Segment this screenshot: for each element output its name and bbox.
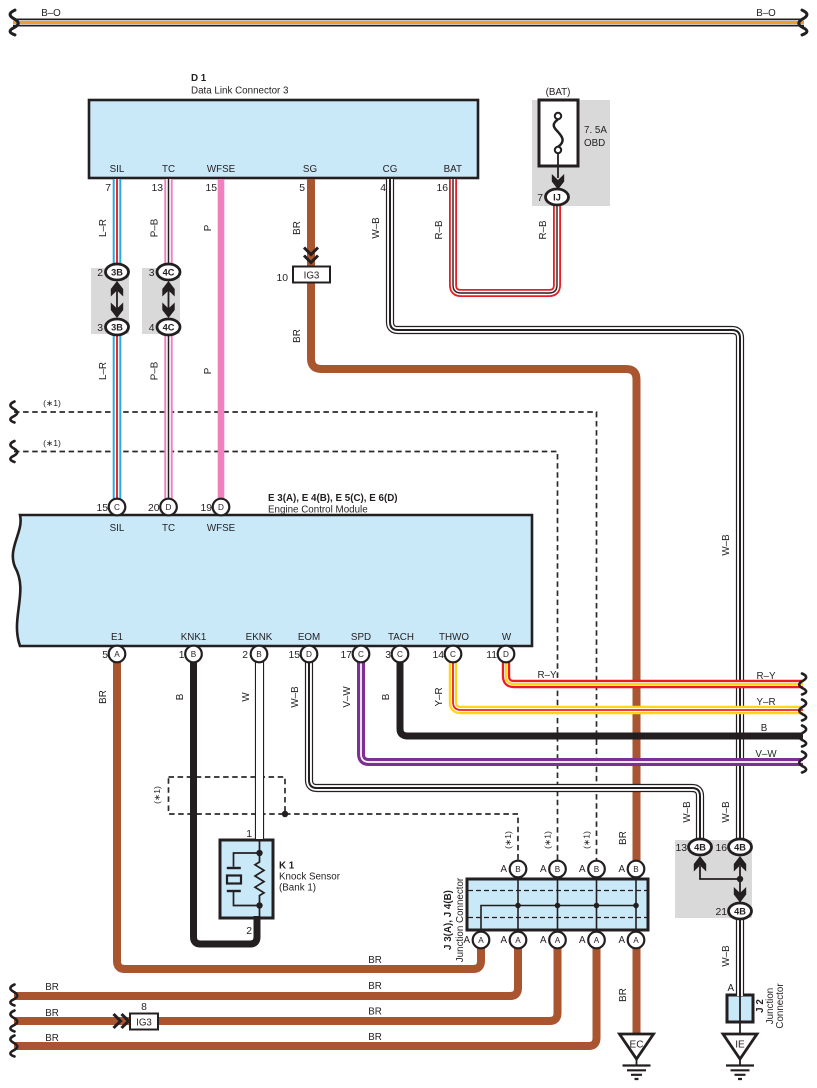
svg-text:BR: BR — [618, 988, 629, 1002]
svg-text:A: A — [540, 864, 547, 875]
svg-text:IJ: IJ — [553, 193, 561, 203]
dashed shield line 3 to junction B1 — [285, 814, 518, 860]
J2 junction connector box — [727, 995, 753, 1022]
wire R-B BAT to IJ — [453, 179, 557, 293]
wire L-R SIL — [113, 179, 122, 507]
svg-text:4C: 4C — [163, 268, 175, 278]
oval 13(4B) — [689, 839, 712, 855]
J3(A) J4(B) junction connector box — [467, 879, 648, 930]
D1 pin names — [110, 164, 462, 175]
junction pin letters and A labels — [478, 865, 639, 945]
svg-text:L–R: L–R — [98, 362, 109, 380]
svg-text:A: A — [540, 935, 547, 946]
svg-text:D: D — [166, 503, 172, 512]
junction bottom pin circles A — [473, 932, 645, 949]
wire J2 to IE ground — [739, 996, 741, 1035]
BR labels bottom harness — [45, 955, 382, 1044]
svg-text:3: 3 — [385, 650, 391, 661]
svg-text:SIL: SIL — [110, 164, 125, 175]
svg-text:B–O: B–O — [41, 8, 61, 19]
svg-text:A: A — [727, 983, 734, 994]
svg-text:R–Y: R–Y — [756, 671, 776, 682]
svg-text:D 1: D 1 — [191, 73, 207, 84]
svg-text:B: B — [381, 693, 392, 700]
svg-text:(∗1): (∗1) — [43, 398, 61, 408]
svg-text:CG: CG — [383, 164, 398, 175]
svg-text:W–B: W–B — [721, 801, 732, 823]
svg-text:E1: E1 — [111, 632, 123, 643]
ECM top pin circles — [109, 499, 230, 516]
dashed shield line 2 (*1) to junction B2 — [14, 452, 558, 861]
svg-text:BR: BR — [45, 1008, 59, 1019]
svg-text:BR: BR — [368, 1032, 382, 1043]
svg-text:A: A — [633, 936, 639, 945]
svg-text:A: A — [579, 864, 586, 875]
svg-text:C: C — [114, 503, 120, 512]
ECM bottom pin circles — [109, 646, 515, 663]
svg-text:A: A — [555, 936, 561, 945]
svg-text:W: W — [241, 692, 252, 702]
svg-text:KNK1: KNK1 — [181, 632, 207, 643]
svg-text:P: P — [203, 367, 214, 374]
svg-text:OBD: OBD — [584, 138, 605, 149]
svg-text:EC: EC — [630, 1040, 644, 1051]
curl left BR3 — [10, 1036, 17, 1057]
svg-text:7: 7 — [537, 193, 543, 204]
curl right B-O — [799, 10, 807, 35]
svg-text:14: 14 — [432, 650, 444, 661]
oval 3B lower — [106, 319, 129, 335]
svg-text:BR: BR — [98, 690, 109, 704]
ground IE — [723, 1034, 757, 1079]
curl right Y-R — [799, 700, 806, 721]
ECM box E3(A) E4(B) E5(C) E6(D) — [13, 515, 532, 646]
svg-text:15: 15 — [96, 503, 108, 514]
ECM top pin letters — [114, 503, 224, 512]
svg-text:11: 11 — [486, 650, 497, 661]
svg-text:10: 10 — [276, 273, 288, 284]
oval 4C upper — [157, 264, 180, 280]
wire R-Y W to right — [506, 655, 803, 684]
svg-text:L–R: L–R — [98, 219, 109, 237]
svg-text:W–B: W–B — [721, 534, 732, 556]
svg-text:WFSE: WFSE — [207, 523, 236, 534]
connector 3B background — [91, 268, 129, 334]
connector 4B background — [675, 840, 752, 918]
svg-text:B: B — [555, 865, 561, 874]
svg-text:BAT: BAT — [444, 164, 462, 175]
svg-text:A: A — [594, 936, 600, 945]
svg-text:A: A — [114, 650, 120, 659]
svg-text:BR: BR — [368, 1007, 382, 1018]
svg-text:TC: TC — [162, 164, 175, 175]
svg-text:W: W — [502, 632, 512, 643]
rotated labels right column — [618, 801, 732, 1002]
ECM pin names bottom — [111, 632, 512, 643]
svg-text:BR: BR — [45, 982, 59, 993]
wire W-B CG to 16(4B) — [390, 179, 740, 840]
svg-text:BR: BR — [618, 831, 629, 845]
svg-text:A: A — [478, 936, 484, 945]
svg-text:(∗1): (∗1) — [43, 438, 61, 448]
svg-text:WFSE: WFSE — [207, 164, 236, 175]
svg-text:4B: 4B — [734, 843, 746, 853]
wire B TACH to right — [400, 655, 803, 736]
wire Y-R THWO to right — [453, 655, 803, 710]
svg-text:1: 1 — [246, 829, 252, 840]
svg-text:P–B: P–B — [150, 218, 161, 237]
svg-text:13: 13 — [675, 843, 687, 854]
(*1) rotated labels at junction — [152, 786, 592, 849]
svg-text:(∗1): (∗1) — [152, 786, 162, 804]
svg-text:D: D — [218, 503, 224, 512]
oval 4C lower — [157, 319, 180, 335]
svg-text:BR: BR — [45, 1033, 59, 1044]
svg-text:D: D — [306, 650, 312, 659]
svg-text:17: 17 — [340, 650, 352, 661]
svg-text:B: B — [191, 650, 197, 659]
fuse block background (BAT) — [532, 100, 610, 206]
svg-text:5: 5 — [299, 183, 305, 194]
svg-text:15: 15 — [288, 650, 300, 661]
svg-text:BR: BR — [292, 221, 303, 235]
wire V-W SPD to right — [361, 655, 803, 762]
rotated wire labels upper — [98, 217, 732, 556]
svg-text:A: A — [618, 935, 625, 946]
svg-text:IE: IE — [735, 1040, 745, 1051]
svg-text:R–B: R–B — [538, 220, 549, 240]
svg-text:J 3(A), J 4(B): J 3(A), J 4(B) — [443, 890, 454, 950]
svg-text:8: 8 — [141, 1002, 147, 1013]
svg-text:4B: 4B — [694, 843, 706, 853]
wire BR left harness 3 to junction A4 — [14, 947, 597, 1046]
curl left dash2 — [10, 441, 17, 462]
dashed shield line 1 (*1) to junction B3 — [14, 412, 597, 860]
curl left B-O — [10, 10, 18, 35]
svg-text:W–B: W–B — [682, 801, 693, 823]
oval 21(4B) — [729, 903, 752, 919]
svg-text:B: B — [256, 650, 262, 659]
right edge wire labels — [755, 671, 777, 760]
svg-text:W–B: W–B — [721, 945, 732, 967]
wire BR left harness 2 via IG3 to junction A3 — [14, 947, 558, 1021]
wire BR left harness 1 to junction A2 — [14, 947, 518, 996]
svg-text:Knock Sensor: Knock Sensor — [279, 872, 341, 883]
wire W EKNK to knock sensor pin1 — [255, 655, 264, 839]
svg-text:Data Link Connector 3: Data Link Connector 3 — [191, 86, 289, 97]
svg-text:B: B — [633, 865, 639, 874]
4B connector arrows and stems — [694, 856, 746, 903]
rotated wire labels below ECM — [98, 686, 445, 708]
svg-text:TACH: TACH — [388, 632, 414, 643]
numbers near ovals — [97, 268, 727, 918]
svg-text:SIL: SIL — [110, 523, 125, 534]
dashed shield box (*1) at knock sensor — [169, 777, 286, 814]
curl right R-Y — [799, 674, 806, 695]
wire B KNK1 to knock sensor pin2 — [194, 655, 258, 944]
svg-text:Junction Connector: Junction Connector — [455, 877, 466, 962]
wire P WFSE — [218, 179, 225, 507]
svg-text:B–O: B–O — [756, 8, 776, 19]
wire BR junction A5 to EC ground — [633, 933, 641, 1035]
svg-text:(∗1): (∗1) — [503, 831, 513, 849]
svg-text:C: C — [358, 650, 364, 659]
curl right B — [799, 726, 806, 747]
svg-text:P–B: P–B — [150, 361, 161, 380]
svg-text:4B: 4B — [734, 907, 746, 917]
wire BR E1 to junction A1 — [117, 655, 481, 969]
svg-text:V–W: V–W — [342, 686, 353, 708]
K1 knock sensor box — [220, 840, 273, 918]
svg-text:A: A — [515, 936, 521, 945]
svg-text:P: P — [203, 224, 214, 231]
svg-text:BR: BR — [292, 329, 303, 343]
svg-text:R–Y: R–Y — [537, 670, 557, 681]
svg-text:Y–R: Y–R — [434, 687, 445, 706]
junction dot on dashed box corner — [282, 811, 288, 817]
svg-text:SG: SG — [303, 164, 317, 175]
svg-text:4C: 4C — [163, 323, 175, 333]
svg-text:SPD: SPD — [351, 632, 371, 643]
connector pair 3B arrows — [111, 281, 123, 318]
svg-text:Engine Control Module: Engine Control Module — [268, 505, 368, 516]
ECM bottom pin numbers — [102, 650, 497, 661]
svg-text:4: 4 — [149, 323, 155, 334]
svg-text:E 3(A), E 4(B), E 5(C), E 6(D): E 3(A), E 4(B), E 5(C), E 6(D) — [268, 493, 398, 504]
svg-text:V–W: V–W — [755, 749, 777, 760]
svg-text:3: 3 — [149, 268, 155, 279]
oval IJ — [546, 189, 569, 205]
junction top pin circles B — [510, 861, 645, 878]
svg-text:13: 13 — [151, 183, 163, 194]
svg-text:TC: TC — [162, 523, 175, 534]
svg-text:BR: BR — [368, 955, 382, 966]
curl left BR2 — [10, 1011, 17, 1032]
oval 16(4B) — [729, 839, 752, 855]
svg-text:Y–R: Y–R — [756, 697, 775, 708]
connector 4C background — [142, 268, 180, 334]
svg-text:C: C — [450, 650, 456, 659]
wire W-B EOM to 13(4B) — [309, 655, 700, 840]
svg-text:2: 2 — [246, 926, 252, 937]
svg-text:15: 15 — [205, 183, 217, 194]
chevron arrows IG3 on BR2 wire — [114, 1014, 129, 1028]
curl right V-W — [799, 752, 806, 773]
wire P-B TC — [164, 179, 172, 507]
ECM bottom pin letters — [114, 650, 509, 659]
svg-text:B: B — [594, 865, 600, 874]
svg-text:2: 2 — [97, 268, 103, 279]
svg-text:B: B — [761, 723, 768, 734]
svg-text:IG3: IG3 — [136, 1018, 152, 1029]
svg-text:D: D — [503, 650, 509, 659]
IG3 connector box top — [293, 267, 330, 283]
svg-text:B: B — [175, 693, 186, 700]
svg-text:K 1: K 1 — [279, 861, 295, 872]
svg-text:EOM: EOM — [298, 632, 320, 643]
svg-text:(∗1): (∗1) — [543, 831, 553, 849]
svg-text:7. 5A: 7. 5A — [584, 125, 607, 136]
svg-text:A: A — [618, 864, 625, 875]
svg-text:(Bank 1): (Bank 1) — [279, 883, 316, 894]
svg-text:1: 1 — [179, 650, 185, 661]
ECM pin names top — [110, 523, 236, 534]
oval 3B upper — [106, 264, 129, 280]
ground EC — [620, 1034, 654, 1079]
svg-text:THWO: THWO — [439, 632, 469, 643]
chevron arrows IG3 on SG wire — [304, 248, 318, 263]
svg-text:20: 20 — [148, 503, 160, 514]
wire W-B 21(4B) to J2 — [736, 918, 744, 996]
svg-text:3: 3 — [97, 323, 103, 334]
oval texts — [111, 193, 746, 917]
D1 Data Link Connector 3 box — [89, 100, 478, 178]
curl left dash1 — [10, 402, 17, 423]
svg-text:EKNK: EKNK — [246, 632, 273, 643]
K1 internal circuit: resistor and capacitor — [227, 840, 264, 918]
svg-text:5: 5 — [102, 650, 108, 661]
svg-text:2: 2 — [242, 650, 248, 661]
IG3 connector box bottom — [130, 1014, 158, 1030]
svg-text:16: 16 — [436, 183, 448, 194]
svg-text:19: 19 — [200, 503, 212, 514]
fuse 7.5A OBD — [539, 100, 578, 190]
svg-text:3B: 3B — [111, 268, 123, 278]
wire BR SG to EC ground, via IG3 — [311, 179, 637, 861]
svg-text:R–B: R–B — [434, 220, 445, 240]
svg-text:A: A — [579, 935, 586, 946]
svg-text:A: A — [500, 935, 507, 946]
svg-text:21: 21 — [715, 907, 727, 918]
svg-text:(BAT): (BAT) — [546, 87, 571, 98]
svg-text:B: B — [515, 865, 521, 874]
svg-text:7: 7 — [105, 183, 111, 194]
connector pair 4C arrows — [162, 281, 174, 318]
D1 pin numbers — [105, 183, 448, 194]
wire B-O top harness — [13, 19, 804, 27]
svg-text:A: A — [500, 864, 507, 875]
junction internal bus — [481, 878, 636, 932]
svg-text:3B: 3B — [111, 323, 123, 333]
svg-text:W–B: W–B — [290, 686, 301, 708]
svg-text:BR: BR — [368, 981, 382, 992]
svg-text:Connector: Connector — [775, 983, 786, 1029]
svg-text:C: C — [397, 650, 403, 659]
svg-text:(∗1): (∗1) — [582, 831, 592, 849]
svg-text:IG3: IG3 — [304, 271, 320, 282]
svg-text:W–B: W–B — [371, 217, 382, 239]
ECM top pin numbers — [96, 503, 212, 514]
svg-text:4: 4 — [380, 183, 386, 194]
curl left BR1 — [10, 985, 17, 1006]
svg-text:16: 16 — [715, 843, 727, 854]
